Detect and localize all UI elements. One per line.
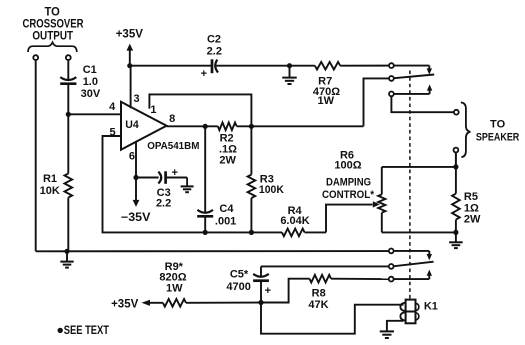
wire C2 to ground tap (216, 65, 315, 67)
contact1 blade (394, 75, 434, 79)
resistor R2 (218, 123, 237, 131)
svg-text:C4: C4 (219, 203, 234, 215)
resistor R3 (250, 126, 252, 174)
resistor R9 (149, 302, 163, 304)
svg-text:1: 1 (150, 104, 156, 116)
wire contact1c to speaker hot (391, 97, 453, 112)
contact2 fixed arrow down (428, 251, 430, 255)
node C2 ground junction (287, 63, 292, 68)
node speaker return junction (453, 164, 458, 169)
wire pin 3 to V+ rail (130, 66, 132, 109)
svg-text:30V: 30V (81, 88, 101, 100)
contact2 blade (394, 262, 434, 267)
svg-text:2W: 2W (219, 155, 236, 167)
resistor R7 (315, 62, 340, 70)
ground C3 (186, 178, 188, 187)
wire contact2a fixed (394, 250, 429, 252)
supply -35V (135, 178, 137, 201)
potentiometer R6 element (381, 167, 383, 195)
svg-text:+: + (265, 285, 271, 297)
resistor R4 (252, 231, 282, 233)
wire ground bus (36, 250, 389, 252)
svg-text:3: 3 (133, 93, 139, 105)
wire pot top (382, 166, 456, 168)
node IN junction (66, 112, 71, 117)
terminal contact2b (389, 264, 394, 269)
capacitor C2 (211, 59, 214, 73)
ground C2 (289, 66, 291, 78)
svg-text:1W: 1W (318, 95, 335, 107)
ground K1 (380, 330, 394, 332)
capacitor C4 (197, 210, 213, 213)
relay K1 coil (406, 300, 416, 324)
wiper arrow (373, 201, 380, 207)
terminal speaker bottom (454, 148, 459, 153)
wire input left down (35, 61, 37, 252)
svg-text:C5*: C5* (230, 268, 249, 280)
svg-text:8: 8 (169, 113, 175, 125)
capacitor C3 (136, 177, 159, 179)
op-amp U4 (121, 102, 167, 150)
svg-text:TO: TO (490, 119, 506, 131)
svg-text:R8: R8 (312, 288, 326, 300)
resistor R5 (455, 167, 457, 194)
wire C5 to contact2b (261, 265, 388, 267)
wire R4 to wiper (326, 205, 373, 233)
svg-text:+35V: +35V (111, 299, 139, 311)
svg-text:6.04K: 6.04K (280, 215, 309, 227)
svg-text:+35V: +35V (116, 29, 144, 41)
label SEE TEXT note (58, 328, 63, 333)
wire C5 junction to K1 (261, 303, 404, 334)
node C5 junction (258, 300, 263, 305)
wire output pin 8 (167, 125, 218, 127)
svg-text:2.2: 2.2 (207, 46, 222, 58)
svg-text:TO: TO (45, 6, 60, 18)
svg-text:K1: K1 (424, 301, 438, 313)
svg-text:DAMPING: DAMPING (326, 176, 371, 188)
terminal speaker top (454, 110, 459, 115)
node pin6 junction (133, 175, 138, 180)
svg-text:CONTROL*: CONTROL* (322, 189, 375, 201)
terminal contact2a (389, 249, 394, 254)
svg-text:100K: 100K (259, 184, 284, 196)
wire pin 5 feedback (103, 136, 253, 232)
svg-text:4700: 4700 (226, 281, 250, 293)
terminal input left (33, 55, 38, 60)
wire node output to C4 (204, 126, 206, 212)
svg-text:−35V: −35V (121, 212, 151, 224)
svg-text:4: 4 (109, 101, 116, 113)
wire contact1c fixed (394, 93, 429, 95)
dashed relay linkage (409, 71, 411, 300)
wire output to contact1b (364, 78, 389, 126)
ground bus junction (64, 249, 69, 254)
svg-text:R2: R2 (220, 132, 234, 144)
ground main (66, 251, 68, 261)
brace crossover input (28, 42, 77, 52)
svg-text:1W: 1W (166, 283, 183, 295)
svg-text:U4: U4 (125, 119, 139, 131)
capacitor C1 (60, 77, 76, 80)
svg-text:.001: .001 (215, 216, 236, 228)
resistor R1 (67, 114, 69, 173)
terminal contact1c (389, 92, 394, 97)
wire V+ to C2 (130, 65, 211, 67)
node B junction (249, 124, 254, 129)
terminal contact1b (389, 76, 394, 81)
terminal contact2c (389, 277, 394, 282)
wire pin 1 feedback (149, 94, 251, 126)
contact1 fixed arrow up (429, 90, 431, 94)
svg-text:C1: C1 (83, 64, 97, 76)
wire input right to C1 (67, 61, 69, 80)
node R3 bottom junction (249, 230, 254, 235)
wire node IN to pin 4 (68, 113, 121, 115)
svg-text:10K: 10K (40, 185, 60, 197)
node C4 bottom junction (203, 230, 208, 235)
wire contact2c fixed (394, 278, 429, 280)
resistor R8 (261, 279, 310, 303)
svg-text:SEE TEXT: SEE TEXT (64, 325, 109, 337)
svg-text:1.0: 1.0 (83, 76, 98, 88)
terminal input right (66, 55, 71, 60)
wire R2 to node B (237, 125, 364, 127)
svg-text:C2: C2 (207, 34, 221, 46)
svg-text:47K: 47K (308, 299, 328, 311)
contact1 fixed arrow down (428, 66, 430, 70)
wire C1 to node IN (67, 85, 69, 114)
contact2 fixed arrow up (428, 276, 430, 280)
node output junction (203, 124, 208, 129)
brace speaker (461, 102, 471, 157)
wire contact1a fixed (394, 65, 429, 67)
wire R7 to contact1a (340, 65, 388, 67)
wire speaker bottom stub (455, 153, 457, 167)
svg-text:100Ω: 100Ω (334, 159, 361, 171)
ground R5 (455, 232, 457, 242)
svg-text:2.2: 2.2 (156, 198, 171, 210)
wire pot bottom (382, 231, 456, 233)
node V+ junction (127, 63, 132, 68)
svg-text:CROSSOVER: CROSSOVER (23, 19, 85, 31)
wire pin 6 stub (135, 141, 137, 177)
svg-text:OPA541BM: OPA541BM (147, 141, 199, 152)
capacitor C5 (260, 282, 262, 303)
node R5 bottom junction (453, 230, 458, 235)
svg-text:6: 6 (129, 150, 135, 162)
svg-text:+: + (201, 68, 207, 80)
wire K1 to ground (387, 321, 404, 331)
svg-text:SPEAKER: SPEAKER (476, 131, 519, 143)
svg-text:OUTPUT: OUTPUT (32, 30, 73, 42)
svg-text:R1: R1 (43, 173, 57, 185)
terminal contact1a (389, 63, 394, 68)
svg-text:+: + (171, 167, 177, 179)
svg-text:2W: 2W (464, 213, 481, 225)
